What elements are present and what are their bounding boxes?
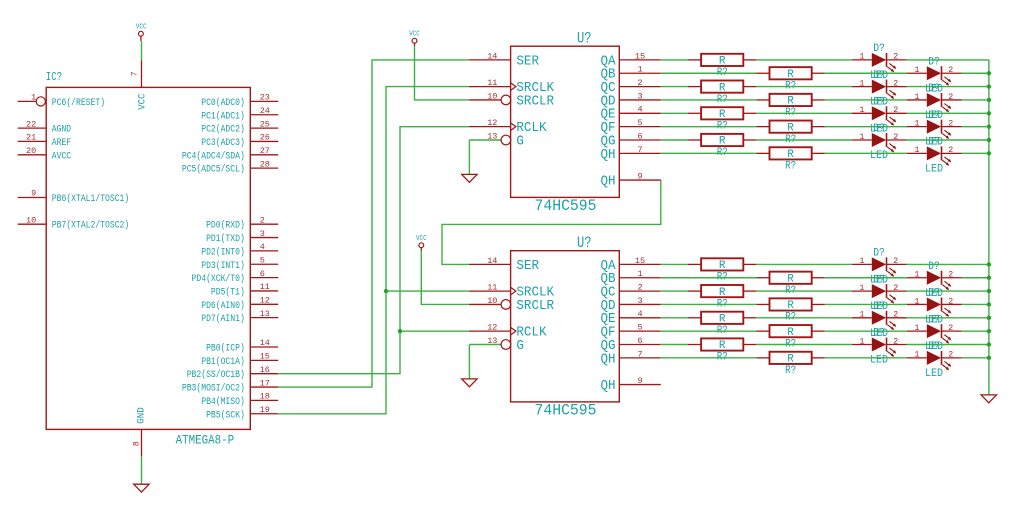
wire net MOSI: pin 17 to SER bus [278,60,469,387]
svg-text:4: 4 [637,309,642,319]
svg-text:2: 2 [893,78,898,88]
svg-text:PC0(ADC0): PC0(ADC0) [201,97,245,109]
pin 13 G of U? (bank1) [469,131,524,149]
svg-text:2: 2 [637,78,642,88]
svg-text:13: 13 [487,336,497,346]
junction SRCLK bus / bank2 [384,289,388,293]
svg-text:SRCLR: SRCLR [516,299,554,314]
svg-text:5: 5 [260,255,265,265]
svg-text:7: 7 [130,71,140,76]
svg-text:1: 1 [859,310,864,320]
svg-text:R: R [719,287,726,299]
svg-text:4: 4 [260,242,265,252]
svg-text:2: 2 [893,52,898,62]
pin 14 PB0(ICP) of IC? [206,338,278,354]
svg-text:15: 15 [635,51,645,61]
svg-text:D?: D? [873,123,885,135]
LED D? (bank2 QD) [907,288,962,327]
svg-text:LED: LED [870,355,888,367]
svg-text:2: 2 [893,336,898,346]
svg-text:2: 2 [893,310,898,320]
svg-text:R: R [787,354,794,366]
pin 2 PD0(RXD) of IC? [206,215,278,231]
svg-text:1: 1 [859,256,864,266]
svg-text:R: R [719,82,726,94]
ground symbol (bank2) [462,379,477,387]
svg-text:25: 25 [260,119,270,129]
svg-text:QH: QH [601,379,616,394]
LED D? (bank2 QC) [852,274,907,313]
ground symbol (right rail) [981,395,996,403]
svg-text:9: 9 [637,376,642,386]
svg-text:17: 17 [260,378,270,388]
junction rail bank2 QA [987,262,991,266]
pin 10 SRCLR of U? (bank1) [469,91,554,109]
svg-text:QH: QH [601,352,616,367]
pin 11 PD5(T1) of IC? [211,282,278,298]
svg-text:2: 2 [948,65,953,75]
pin 17 PB3(MOSI/OC2) of IC? [182,378,278,394]
wire pin 8 to ground [141,456,143,484]
wire net SCK: pin 19 to SRCLK bus [278,87,469,414]
resistor R? (bank2 QH) [756,352,824,377]
svg-text:PC5(ADC5/SCL): PC5(ADC5/SCL) [182,164,245,176]
pin 20 AVCC of IC? [18,146,71,162]
pin 9 PB6(XTAL1/TOSC1) of IC? [18,189,130,205]
svg-text:19: 19 [260,405,270,415]
svg-text:PC2(ADC2): PC2(ADC2) [201,124,245,136]
svg-text:PB1(OC1A): PB1(OC1A) [201,356,245,368]
resistor R? (bank1 QC) [688,81,756,106]
svg-text:28: 28 [260,159,270,169]
svg-text:1: 1 [31,93,36,103]
wire net QF bank1 [661,126,989,128]
LED D? (bank1 QH) [907,137,962,176]
resistor R? (bank2 QD) [756,298,824,323]
svg-text:3: 3 [260,229,265,239]
pin 7 QH of U? (bank2) [601,349,661,367]
svg-text:1: 1 [859,283,864,293]
pin 19 PB5(SCK) of IC? [206,405,278,421]
svg-text:1: 1 [859,132,864,142]
svg-text:21: 21 [26,133,36,143]
wire net QC bank1 [661,86,989,88]
resistor R? (bank2 QG) [688,338,756,363]
svg-text:12: 12 [260,296,270,306]
svg-text:2: 2 [893,132,898,142]
pin 27 PC4(ADC4/SDA) of IC? [182,146,278,162]
svg-text:R?: R? [785,161,796,173]
svg-text:1: 1 [859,78,864,88]
svg-text:G: G [516,339,524,354]
svg-text:AGND: AGND [52,125,71,136]
svg-text:1: 1 [637,65,642,75]
svg-text:7: 7 [637,349,642,359]
wire net QF bank2 [661,330,989,332]
svg-text:14: 14 [260,338,270,348]
svg-text:27: 27 [260,146,270,156]
svg-text:QH: QH [601,174,616,189]
pin 3 QD of U? (bank2) [601,296,661,314]
wire net QH bank1 [661,152,989,154]
svg-text:R?: R? [785,365,796,377]
pin 9 QH' of U? (bank2) [601,376,661,394]
svg-text:LED: LED [870,150,888,162]
svg-text:23: 23 [260,93,270,103]
wire net QE bank2 [661,317,989,319]
wire net QB bank2 [661,277,989,279]
svg-text:11: 11 [487,283,497,293]
pin 14 SER of U? (bank2) [469,256,539,274]
svg-text:1: 1 [859,336,864,346]
LED D? (bank2 QH) [907,341,962,380]
svg-text:R: R [787,300,794,312]
pin 12 RCLK of U? (bank1) [469,118,547,136]
svg-text:10: 10 [487,296,497,306]
svg-text:PC6(/RESET): PC6(/RESET) [52,97,105,109]
LED D? (bank2 QA) [852,248,907,287]
pin 13 PD7(AIN1) of IC? [201,309,278,325]
svg-text:SER: SER [516,54,539,69]
svg-text:PD2(INT0): PD2(INT0) [201,246,245,258]
wire net QB bank1 [661,72,989,74]
svg-text:R: R [787,273,794,285]
shift register U? 74HC595 (bank2) body [511,251,620,402]
junction rail bank2 QE [987,316,991,320]
wire net QH bank2 [661,357,989,359]
junction rail bank2 QG [987,342,991,346]
junction rail bank2 QC [987,289,991,293]
svg-text:22: 22 [26,119,36,129]
svg-text:LED: LED [925,368,943,380]
pin 21 AREF of IC? [18,133,71,149]
svg-text:PC1(ADC1): PC1(ADC1) [201,110,245,122]
pin 22 AGND of IC? [18,119,71,135]
svg-text:5: 5 [637,323,642,333]
svg-text:2: 2 [948,296,953,306]
pin 11 SRCLK of U? (bank2) [469,283,555,301]
pin 5 QF of U? (bank1) [601,118,661,136]
svg-text:PD7(AIN1): PD7(AIN1) [201,313,245,325]
pin 10 SRCLR of U? (bank2) [469,296,554,314]
svg-text:6: 6 [637,131,642,141]
svg-text:D?: D? [873,328,885,340]
svg-text:2: 2 [893,256,898,266]
pin 25 PC2(ADC2) of IC? [201,119,278,135]
LED D? (bank1 QG) [852,123,907,162]
svg-text:QH: QH [601,148,616,163]
resistor R? (bank1 QG) [688,134,756,159]
svg-text:D?: D? [928,288,940,300]
svg-text:2: 2 [948,323,953,333]
junction rail bank1 QF [987,124,991,128]
svg-text:16: 16 [260,365,270,375]
svg-text:2: 2 [948,118,953,128]
svg-text:13: 13 [260,309,270,319]
svg-text:VCC: VCC [138,94,149,110]
svg-text:1: 1 [637,269,642,279]
pin 4 QE of U? (bank1) [601,105,661,123]
pin 1 QB of U? (bank1) [601,65,661,83]
svg-text:R: R [719,314,726,326]
U? reference label (bank1) [577,30,592,48]
svg-text:3: 3 [637,91,642,101]
junction rail bank2 QB [987,276,991,280]
wire VCC to pin 7 [141,41,143,61]
LED D? (bank1 QE) [852,97,907,136]
resistor R? (bank1 QH) [756,147,824,172]
svg-text:2: 2 [948,270,953,280]
svg-text:8: 8 [132,441,142,446]
pin 6 QG of U? (bank2) [601,336,661,354]
svg-text:6: 6 [637,336,642,346]
svg-text:R: R [719,260,726,272]
svg-text:2: 2 [948,350,953,360]
resistor R? (bank2 QB) [756,272,824,297]
svg-text:13: 13 [487,131,497,141]
shift register U? 74HC595 (bank1) body [511,46,620,197]
resistor R? (bank1 QE) [688,107,756,132]
pin 28 PC5(ADC5/SCL) of IC? [182,159,278,175]
svg-text:R: R [787,327,794,339]
svg-text:G: G [516,134,524,149]
74HC595 value label (bank2) [535,402,597,420]
svg-text:D?: D? [928,137,940,149]
U? reference label (bank2) [577,234,592,252]
svg-text:PD1(TXD): PD1(TXD) [206,233,245,245]
junction rail bank1 QD [987,98,991,102]
LED D? (bank1 QC) [852,70,907,109]
svg-text:GND: GND [137,407,148,423]
resistor R? (bank1 QD) [756,94,824,119]
wire net SS: pin 16 to RCLK bus [278,127,469,374]
wire QH' of bank1 to SER of bank2 [442,180,661,264]
LED D? (bank1 QD) [907,83,962,122]
junction rail bank1 QC [987,84,991,88]
svg-text:PB7(XTAL2/TOSC2): PB7(XTAL2/TOSC2) [52,220,129,232]
IC IC? ATMEGA8-P body [46,87,250,429]
wire VCC to SRCLR (bank2) [421,251,469,305]
pin 15 QA of U? (bank2) [601,256,661,274]
pin 2 QC of U? (bank2) [601,283,661,301]
pin 7 VCC of IC? [130,60,149,109]
svg-text:PD6(AIN0): PD6(AIN0) [201,300,245,312]
svg-text:PC4(ADC4/SDA): PC4(ADC4/SDA) [182,150,245,162]
svg-text:PB0(ICP): PB0(ICP) [206,343,245,355]
pin 12 PD6(AIN0) of IC? [201,296,278,312]
svg-text:2: 2 [893,105,898,115]
svg-text:D?: D? [873,70,885,82]
svg-text:5: 5 [637,118,642,128]
pin 24 PC1(ADC1) of IC? [201,106,278,122]
svg-text:1: 1 [914,92,919,102]
pin 7 QH of U? (bank1) [601,145,661,163]
LED D? (bank2 QF) [907,314,962,353]
svg-text:R: R [787,69,794,81]
svg-text:11: 11 [260,282,270,292]
pin 5 PD3(INT1) of IC? [201,255,278,271]
pin 6 PD4(XCK/T0) of IC? [192,269,279,285]
wire net QE bank1 [661,112,989,114]
pin 18 PB4(MISO) of IC? [201,392,278,408]
resistor R? (bank1 QA) [688,54,756,79]
pin 4 PD2(INT0) of IC? [201,242,278,258]
pin 2 QC of U? (bank1) [601,78,661,96]
svg-text:PB6(XTAL1/TOSC1): PB6(XTAL1/TOSC1) [52,193,129,205]
junction rail bank2 QF [987,329,991,333]
svg-text:1: 1 [914,270,919,280]
resistor R? (bank2 QE) [688,312,756,337]
svg-text:R: R [719,340,726,352]
svg-text:11: 11 [487,78,497,88]
svg-text:U?: U? [577,30,592,48]
junction rail bank1 QG [987,138,991,142]
svg-text:D?: D? [873,301,885,313]
LED D? (bank1 QB) [907,56,962,95]
svg-text:9: 9 [637,171,642,181]
wire net QD bank2 [661,303,989,305]
pin 13 G of U? (bank2) [469,336,524,354]
LED D? (bank1 QF) [907,110,962,149]
svg-text:D?: D? [928,83,940,95]
svg-text:2: 2 [948,145,953,155]
resistor R? (bank2 QF) [756,325,824,350]
svg-text:15: 15 [260,352,270,362]
pin 15 PB1(OC1A) of IC? [201,352,278,368]
svg-text:PD3(INT1): PD3(INT1) [201,260,245,272]
svg-text:PB3(MOSI/OC2): PB3(MOSI/OC2) [182,383,245,395]
pin 26 PC3(ADC3) of IC? [201,133,278,149]
svg-text:14: 14 [487,51,497,61]
svg-text:R: R [787,122,794,134]
svg-text:10: 10 [26,215,36,225]
wire G pin to ground (bank1) [468,140,470,174]
pin 3 QD of U? (bank1) [601,91,661,109]
junction rail bank1 QH [987,151,991,155]
svg-text:PD0(RXD): PD0(RXD) [206,220,245,232]
svg-text:2: 2 [893,283,898,293]
pin 10 PB7(XTAL2/TOSC2) of IC? [18,215,130,231]
power VCC symbol (bank2) [416,235,427,251]
svg-text:LED: LED [925,163,943,175]
pin 11 SRCLK of U? (bank1) [469,78,555,96]
svg-text:PC3(ADC3): PC3(ADC3) [201,137,245,149]
svg-text:6: 6 [260,269,265,279]
svg-text:SRCLR: SRCLR [516,94,554,109]
LED D? (bank2 QG) [852,328,907,367]
pin 4 QE of U? (bank2) [601,309,661,327]
svg-text:1: 1 [859,52,864,62]
svg-text:74HC595: 74HC595 [535,402,597,420]
pin 1 PC6(/RESET) of IC? [18,93,105,109]
wire cathode rail (right) [988,60,990,395]
wire SRCLK branch to U? bank2 [386,290,469,292]
svg-text:R: R [787,149,794,161]
pin 6 QG of U? (bank1) [601,131,661,149]
svg-text:10: 10 [487,91,497,101]
LED D? (bank1 QA) [852,43,907,82]
svg-text:15: 15 [635,256,645,266]
wire net QG bank1 [661,139,989,141]
svg-text:PB4(MISO): PB4(MISO) [201,396,245,408]
pin 12 RCLK of U? (bank2) [469,323,547,341]
svg-text:4: 4 [637,105,642,115]
svg-text:12: 12 [487,118,497,128]
pin 9 QH' of U? (bank1) [601,171,661,189]
svg-text:2: 2 [948,92,953,102]
74HC595 value label (bank1) [535,197,597,215]
junction rail bank2 QH [987,356,991,360]
svg-text:VCC: VCC [136,23,147,31]
pin 8 GND of IC? [132,407,148,456]
LED D? (bank2 QB) [907,261,962,300]
resistor R? (bank2 QA) [688,258,756,283]
svg-text:R: R [719,109,726,121]
resistor R? (bank1 QF) [756,121,824,146]
svg-text:PB5(SCK): PB5(SCK) [206,409,245,421]
svg-text:AVCC: AVCC [52,151,71,162]
svg-text:ATMEGA8-P: ATMEGA8-P [176,432,235,447]
svg-text:1: 1 [914,296,919,306]
wire RCLK branch to U? bank2 [400,330,469,332]
svg-text:VCC: VCC [409,30,420,38]
svg-text:D?: D? [873,43,885,55]
svg-text:D?: D? [928,261,940,273]
svg-text:D?: D? [928,314,940,326]
wire net QD bank1 [661,99,989,101]
svg-text:VCC: VCC [416,235,427,243]
pin 14 SER of U? (bank1) [469,51,539,69]
svg-text:2: 2 [637,283,642,293]
junction rail bank1 QB [987,71,991,75]
wire net QA bank2 [661,263,989,265]
junction rail bank1 QE [987,111,991,115]
svg-text:7: 7 [637,145,642,155]
wire VCC to SRCLR (bank1) [415,46,470,100]
svg-text:D?: D? [873,248,885,260]
svg-text:9: 9 [31,189,36,199]
pin 3 PD1(TXD) of IC? [206,229,278,245]
power VCC symbol above IC? [136,23,147,41]
pin 1 QB of U? (bank2) [601,269,661,287]
ground symbol (bank1) [462,174,477,182]
junction rail bank2 QD [987,302,991,306]
svg-text:D?: D? [873,97,885,109]
svg-text:1: 1 [914,65,919,75]
svg-text:PD4(XCK/T0): PD4(XCK/T0) [192,273,245,285]
svg-text:D?: D? [928,110,940,122]
svg-text:14: 14 [487,256,497,266]
wire net QA bank1 [661,59,989,61]
wire net QG bank2 [661,344,989,346]
svg-text:D?: D? [928,56,940,68]
svg-text:R: R [719,56,726,68]
pin 23 PC0(ADC0) of IC? [201,93,278,109]
svg-text:IC?: IC? [46,71,62,84]
pin 5 QF of U? (bank2) [601,323,661,341]
svg-text:U?: U? [577,234,592,252]
svg-text:2: 2 [260,215,265,225]
ground symbol below IC? [134,484,149,492]
svg-text:24: 24 [260,106,270,116]
svg-text:12: 12 [487,323,497,333]
IC? reference label [46,71,62,84]
svg-text:AREF: AREF [52,138,71,149]
svg-text:3: 3 [637,296,642,306]
svg-text:1: 1 [914,323,919,333]
svg-text:1: 1 [914,145,919,155]
svg-text:20: 20 [26,146,36,156]
